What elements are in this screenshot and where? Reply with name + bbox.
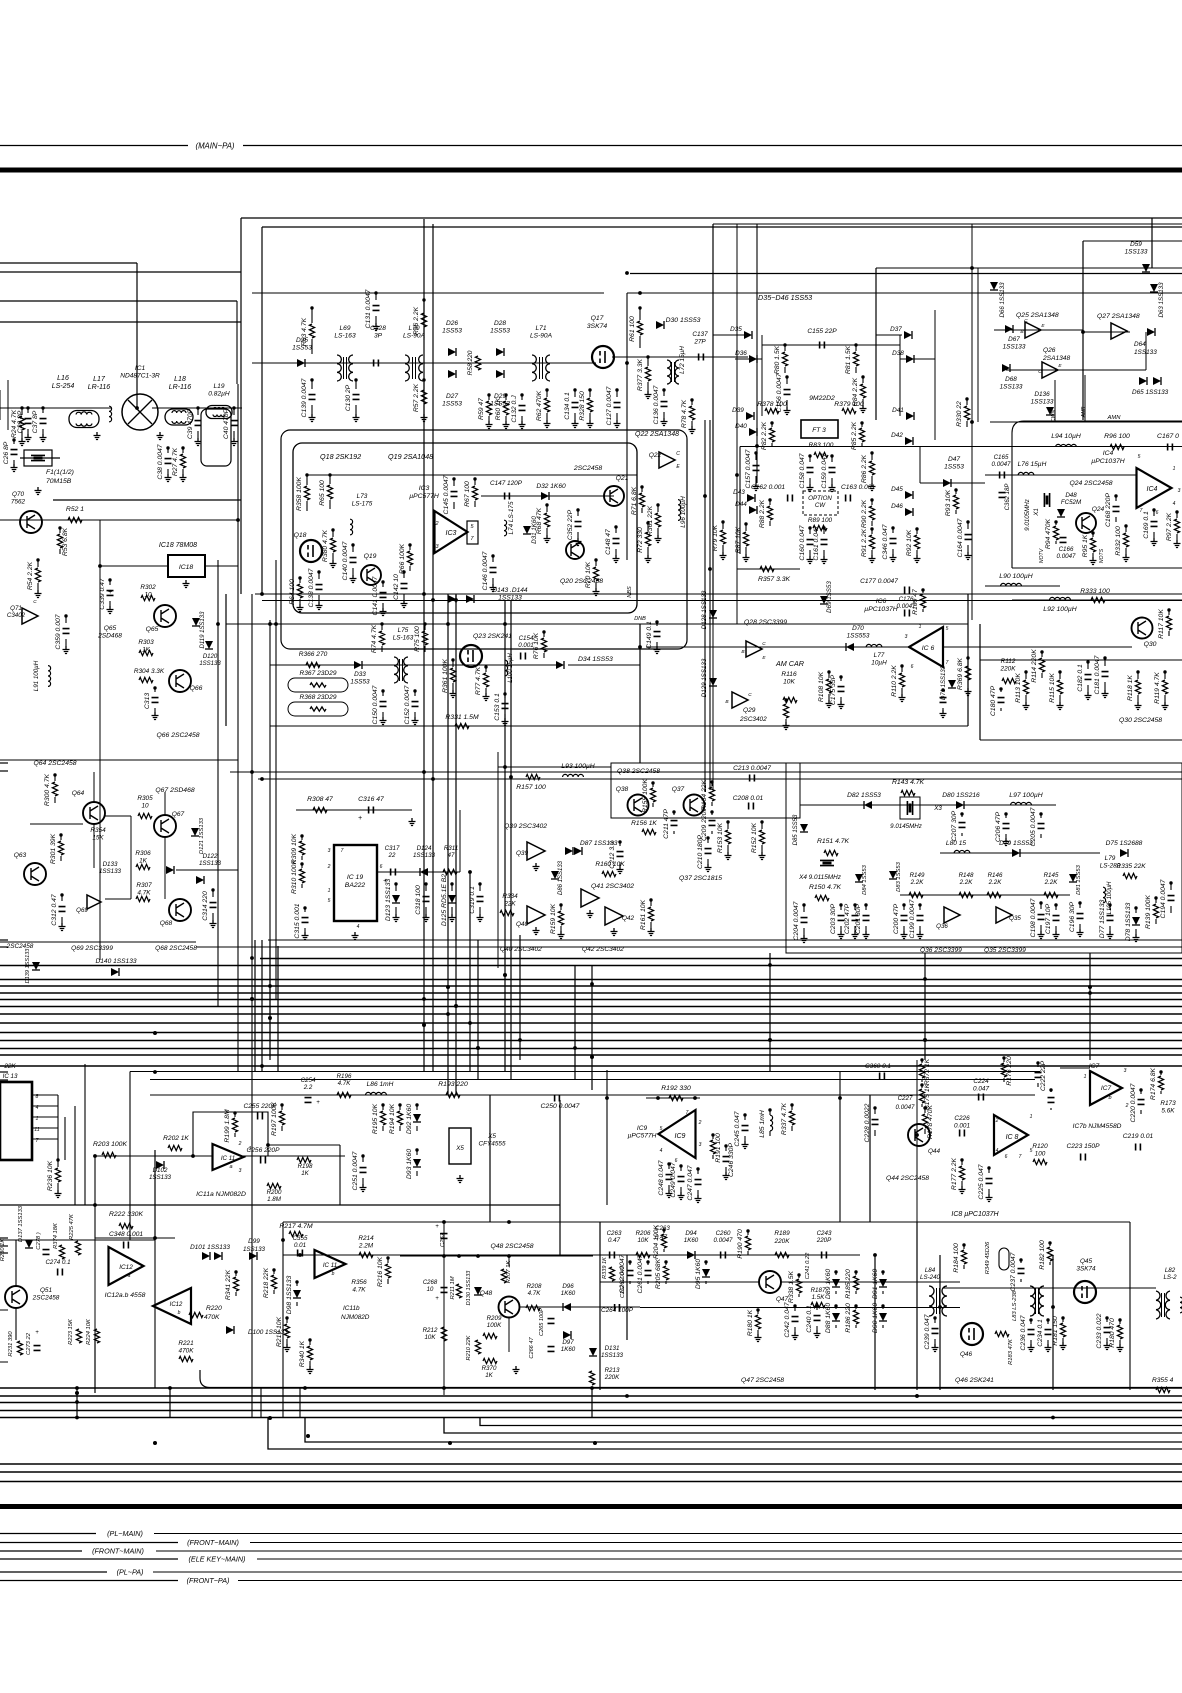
svg-text:X1: X1: [1033, 508, 1040, 517]
svg-text:1K60: 1K60: [561, 1346, 576, 1353]
wire: [0, 1571, 107, 1573]
wire junction: [860, 421, 863, 424]
wire: [619, 862, 621, 866]
wire: [769, 1110, 771, 1115]
svg-text:D93 1K60: D93 1K60: [406, 1149, 413, 1179]
svg-text:Q68 2SC2458: Q68 2SC2458: [155, 945, 197, 952]
svg-text:C152 0.0047: C152 0.0047: [404, 685, 411, 724]
wire junction: [941, 688, 944, 691]
wire: [1059, 672, 1061, 679]
resistor R310: [299, 869, 304, 883]
svg-text:R197 100K: R197 100K: [271, 1102, 278, 1136]
op-amp IC12b 4558: [153, 1288, 191, 1324]
wire junction: [679, 1164, 682, 1167]
svg-text:R366 270: R366 270: [299, 651, 328, 658]
wire: [1168, 610, 1170, 615]
wire: [1155, 919, 1157, 924]
wire junction: [1103, 656, 1106, 659]
diode: [889, 871, 897, 879]
resistor: [483, 1333, 497, 1338]
wire: [416, 1171, 418, 1176]
wire: [855, 345, 857, 351]
svg-text:R95 1K: R95 1K: [1082, 534, 1089, 557]
resistor R380: [330, 538, 335, 552]
wire: [876, 334, 902, 336]
svg-text:R335 22K: R335 22K: [1116, 863, 1146, 870]
svg-text:R331 1.5M: R331 1.5M: [445, 714, 479, 721]
wire junction: [744, 522, 747, 525]
wire: [546, 390, 548, 397]
wire: [0, 1410, 1182, 1412]
IF transformer coil: [165, 409, 193, 425]
svg-text:(ELE KEY~MAIN): (ELE KEY~MAIN): [189, 1555, 246, 1564]
diode: [523, 526, 531, 534]
svg-text:D43: D43: [733, 489, 745, 496]
svg-text:1: 1: [919, 624, 922, 630]
svg-text:Q47 2SC2458: Q47 2SC2458: [741, 1377, 784, 1384]
svg-text:D69 1SS53: D69 1SS53: [826, 581, 833, 613]
wire: [150, 1079, 1035, 1081]
resistor R340: [307, 1346, 312, 1360]
capacitor: [391, 869, 396, 876]
transistor Q71 2SC3402: [22, 608, 38, 624]
wire: [921, 1079, 923, 1082]
wire: [839, 1072, 841, 1223]
ground: [1053, 931, 1060, 939]
wire: [809, 456, 811, 462]
wire: [182, 448, 184, 453]
wire: [924, 953, 926, 1060]
wire junction: [915, 1394, 919, 1398]
diode: [156, 1161, 164, 1169]
wire junction: [268, 984, 272, 988]
svg-text:4.7K: 4.7K: [137, 889, 151, 896]
svg-text:1SS53: 1SS53: [490, 328, 510, 335]
svg-text:D42: D42: [891, 432, 903, 439]
svg-text:D129 1SS133: D129 1SS133: [701, 658, 708, 697]
svg-text:R174 6.8K: R174 6.8K: [1150, 1067, 1157, 1100]
svg-text:LS-2: LS-2: [1163, 1274, 1177, 1281]
wire junction: [153, 1070, 157, 1074]
svg-text:L72 15µH: L72 15µH: [679, 346, 686, 374]
wire junction: [696, 1167, 699, 1170]
svg-text:3: 3: [1178, 488, 1181, 494]
wire: [243, 1155, 345, 1157]
wire: [94, 1238, 96, 1340]
diode: [744, 331, 752, 339]
transistor Q36 2SC3399: [944, 907, 960, 923]
svg-text:R116: R116: [781, 671, 797, 678]
ground: [423, 914, 430, 922]
svg-text:R208: R208: [527, 1283, 542, 1290]
ground: [1174, 540, 1181, 548]
capacitor C248: [666, 1175, 673, 1180]
wire junction: [20, 406, 23, 409]
svg-text:C145 0.0047: C145 0.0047: [443, 475, 450, 514]
filter FT3 9M22D2: [801, 420, 838, 438]
wire: [1012, 599, 1182, 601]
diode: [800, 824, 808, 832]
svg-text:R92 10K: R92 10K: [906, 529, 913, 556]
resistor: [306, 662, 320, 667]
wire junction: [576, 508, 579, 511]
wire junction: [153, 1441, 157, 1445]
wire: [1115, 496, 1117, 501]
wire: [57, 1183, 59, 1190]
wire junction: [196, 406, 199, 409]
wire: [0, 1471, 1182, 1473]
transistor Q24 2SC2458: [1076, 513, 1096, 533]
wire: [619, 842, 621, 846]
svg-text:R354: R354: [90, 827, 106, 834]
wire: [416, 1126, 418, 1131]
wire junction: [1088, 991, 1092, 995]
resistor R155: [650, 788, 655, 802]
wire junction: [59, 833, 62, 836]
wire: [1129, 1222, 1131, 1390]
ground: [821, 556, 828, 564]
svg-text:Q45: Q45: [1080, 1258, 1093, 1265]
svg-text:C127 0.0047: C127 0.0047: [606, 386, 613, 425]
wire: [425, 884, 427, 891]
wire junction: [1108, 903, 1111, 906]
wire: [924, 1129, 926, 1134]
resistor: [441, 1327, 446, 1341]
wire: [443, 1221, 445, 1395]
wire junction: [166, 446, 169, 449]
wire: [784, 367, 786, 373]
capacitor C39: [195, 421, 202, 426]
svg-text:C261 0.0047: C261 0.0047: [637, 1254, 644, 1293]
wire junction: [656, 503, 659, 506]
svg-text:3: 3: [239, 1168, 242, 1174]
wire junction: [211, 888, 214, 891]
wire: [377, 871, 460, 873]
svg-text:Q51: Q51: [40, 1287, 53, 1294]
capacitor: [699, 354, 704, 361]
resistor R114: [1039, 658, 1044, 672]
wire junction: [1134, 906, 1137, 909]
svg-text:220K: 220K: [774, 1238, 791, 1245]
wire junction: [306, 1434, 310, 1438]
wire: [1005, 834, 1007, 838]
svg-text:D65 1SS133: D65 1SS133: [1132, 389, 1169, 396]
capacitor C228: [872, 1120, 879, 1125]
wire: [301, 856, 303, 860]
resistor: [760, 566, 774, 571]
wire: [901, 688, 903, 694]
ground: [107, 606, 114, 614]
wire: [61, 917, 63, 923]
wire: [0, 300, 237, 302]
wire: [474, 479, 476, 485]
svg-text:R153 10K: R153 10K: [717, 822, 724, 853]
wire junction: [41, 406, 44, 409]
transistor Q64 2SC2458: [83, 802, 105, 824]
svg-text:R78 4.7K: R78 4.7K: [681, 399, 688, 428]
svg-text:3: 3: [905, 634, 908, 640]
svg-text:D83 1SS53: D83 1SS53: [896, 861, 902, 891]
svg-text:D46: D46: [891, 503, 903, 510]
wire junction: [838, 1096, 842, 1100]
wire junction: [457, 1254, 461, 1258]
resistor: [313, 807, 327, 812]
capacitor C212: [617, 852, 624, 857]
wire: [0, 1558, 178, 1560]
svg-text:IC 11: IC 11: [323, 1262, 337, 1269]
capacitor C159: [829, 468, 836, 473]
wire: [414, 691, 416, 696]
svg-text:Q39 2SC3402: Q39 2SC3402: [504, 823, 547, 830]
wire: [574, 413, 576, 420]
svg-text:470K: 470K: [204, 1314, 220, 1321]
resistor: [901, 790, 915, 795]
ground: [19, 438, 26, 446]
svg-text:C37 8P: C37 8P: [32, 410, 39, 433]
wire: [167, 469, 169, 474]
wire junction: [923, 1106, 926, 1109]
IC IC13: [0, 1082, 32, 1160]
svg-text:R368 23D29: R368 23D29: [299, 694, 336, 701]
wire: [488, 395, 490, 400]
wire junction: [424, 882, 427, 885]
ground: [838, 701, 845, 709]
svg-text:IC9: IC9: [637, 1125, 648, 1132]
inductor: [109, 406, 112, 422]
capacitor C146: [490, 568, 497, 573]
diode: [906, 355, 914, 363]
svg-text:7: 7: [1019, 1154, 1022, 1160]
svg-text:Q22 2SA1348: Q22 2SA1348: [635, 431, 679, 438]
wire: [94, 1340, 96, 1393]
wire: [725, 1146, 727, 1151]
svg-text:D27: D27: [446, 393, 458, 400]
wire: [309, 1340, 311, 1345]
svg-text:C312 0.47: C312 0.47: [51, 894, 58, 926]
svg-text:2SD468: 2SD468: [97, 633, 122, 640]
svg-text:R213: R213: [605, 1367, 620, 1374]
svg-text:D28: D28: [494, 320, 506, 327]
diode: [448, 370, 456, 378]
capacitor: [555, 1095, 560, 1102]
wire junction: [1086, 660, 1089, 663]
wire junction: [386, 1256, 389, 1259]
wire junction: [58, 526, 61, 529]
resistor R59: [486, 401, 491, 415]
resistor R77: [483, 673, 488, 687]
svg-text:IC 8: IC 8: [1006, 1134, 1019, 1141]
svg-text:D143 .D144: D143 .D144: [492, 587, 528, 594]
resistor R62: [544, 398, 549, 412]
svg-text:D98 1SS133: D98 1SS133: [286, 1276, 293, 1315]
wire junction: [649, 898, 652, 901]
wire junction: [638, 645, 642, 649]
wire: [1003, 1058, 1005, 1062]
wire: [423, 328, 425, 340]
svg-text:C208 0.01: C208 0.01: [733, 795, 764, 802]
svg-text:R67 100: R67 100: [464, 481, 471, 507]
wire junction: [98, 564, 102, 568]
ground: [705, 864, 712, 872]
wire junction: [504, 393, 507, 396]
resistor R56: [421, 313, 426, 327]
svg-text:C169 0.1: C169 0.1: [1143, 511, 1150, 539]
wire junction: [1036, 1061, 1039, 1064]
wire: [656, 622, 658, 626]
wire: [233, 408, 235, 415]
wire junction: [328, 473, 331, 476]
ground: [284, 1344, 291, 1352]
ground: [450, 690, 457, 698]
wire: [423, 405, 425, 414]
svg-text:5: 5: [1138, 454, 1141, 460]
svg-text:OPTION: OPTION: [808, 495, 832, 502]
wire: [568, 664, 640, 666]
svg-text:R357 3.3K: R357 3.3K: [758, 576, 791, 583]
inductor: [866, 644, 882, 647]
wire: [725, 1167, 727, 1172]
svg-text:C164 0.0047: C164 0.0047: [957, 518, 964, 557]
wire: [713, 223, 1182, 225]
wire junction: [351, 543, 354, 546]
wire: [451, 907, 453, 914]
wire: [424, 646, 426, 652]
svg-text:220P: 220P: [816, 1237, 832, 1244]
svg-text:R62 470K: R62 470K: [536, 390, 543, 421]
wire junction: [408, 543, 411, 546]
wire junction: [1040, 650, 1043, 653]
wire: [616, 390, 618, 397]
wire junction: [446, 1012, 450, 1016]
svg-text:R378 100: R378 100: [757, 401, 787, 408]
resistor: [526, 1305, 540, 1310]
svg-text:R192 330: R192 330: [661, 1085, 691, 1092]
wire junction: [153, 1236, 157, 1240]
wire: [505, 395, 507, 400]
wire: [961, 1181, 963, 1186]
wire junction: [268, 1416, 272, 1420]
svg-text:Q46 2SK241: Q46 2SK241: [955, 1377, 994, 1384]
ground: [1107, 931, 1114, 939]
wire junction: [431, 777, 435, 781]
resistor R175: [919, 1089, 924, 1103]
wire: [589, 390, 591, 397]
wire: [0, 1065, 1182, 1067]
wire: [381, 624, 383, 630]
wire junction: [381, 580, 384, 583]
wire junction: [454, 598, 458, 602]
transistor Q40 2SC3402: [527, 906, 545, 924]
svg-text:F1(1(1/2): F1(1(1/2): [46, 469, 74, 476]
ground: [55, 1190, 62, 1198]
svg-text:R24 4.7K: R24 4.7K: [11, 409, 18, 438]
transistor Q44 2SC2458: [908, 1124, 930, 1146]
ground: [617, 866, 624, 874]
svg-text:R27 4.7K: R27 4.7K: [172, 447, 179, 476]
wire: [0, 759, 238, 761]
diode: [496, 348, 504, 356]
wire: [0, 1361, 8, 1363]
svg-text:X3: X3: [933, 805, 942, 812]
diode: [943, 479, 951, 487]
svg-text:R160 10K: R160 10K: [595, 861, 625, 868]
svg-text:0.0047: 0.0047: [896, 1104, 915, 1111]
wire junction: [260, 1064, 264, 1068]
resistor R337: [789, 1111, 794, 1125]
wire junction: [690, 398, 693, 401]
wire junction: [300, 862, 303, 865]
wire: [54, 775, 56, 781]
capacitor C175: [838, 687, 845, 692]
wire: [871, 500, 873, 505]
wire: [212, 913, 214, 920]
diode: [1069, 874, 1077, 882]
svg-text:R75 100: R75 100: [414, 626, 421, 652]
resistor R54: [35, 568, 40, 582]
wire: [65, 616, 67, 623]
svg-text:D87 1SS133: D87 1SS133: [580, 840, 618, 847]
svg-text:C316 47: C316 47: [358, 796, 384, 803]
svg-text:L18: L18: [174, 376, 186, 383]
svg-text:R367 23D29: R367 23D29: [299, 670, 336, 677]
transistor Q66 2SC2458: [169, 670, 191, 692]
wire: [942, 708, 944, 710]
svg-text:C262 0.0047: C262 0.0047: [619, 1254, 626, 1293]
wire: [275, 560, 277, 1000]
wire: [1037, 1063, 1039, 1067]
wire: [967, 681, 969, 688]
wire: [1084, 375, 1086, 422]
ground: [901, 931, 908, 939]
wire junction: [662, 388, 665, 391]
capacitor C153: [502, 704, 509, 709]
wire: [1125, 548, 1127, 554]
svg-text:2.2K: 2.2K: [959, 879, 974, 886]
wire: [1082, 241, 1084, 420]
svg-text:1: 1: [1030, 1114, 1033, 1120]
resistor R82: [769, 428, 774, 442]
svg-text:R93 10K: R93 10K: [945, 489, 952, 516]
wire junction: [478, 882, 481, 885]
wire junction: [651, 781, 654, 784]
wire junction: [573, 388, 576, 391]
wire junction: [545, 388, 548, 391]
wire: [736, 569, 738, 624]
ground: [860, 405, 867, 413]
wire junction: [503, 692, 506, 695]
svg-text:C3402: C3402: [7, 612, 26, 619]
wire junction: [711, 1133, 714, 1136]
resistor R93: [953, 495, 958, 509]
svg-text:10K: 10K: [637, 1237, 649, 1244]
svg-text:C225 0.047: C225 0.047: [978, 1164, 985, 1199]
wire junction: [900, 664, 903, 667]
svg-text:R377 3.3K: R377 3.3K: [637, 358, 644, 391]
svg-text:R206: R206: [636, 1230, 651, 1237]
wire: [828, 694, 830, 700]
wire: [668, 1164, 670, 1169]
wire: [480, 1418, 1182, 1426]
svg-text:C39 470P: C39 470P: [187, 408, 194, 439]
resistor R67: [472, 486, 477, 500]
wire: [828, 672, 830, 678]
wire: [152, 407, 242, 409]
svg-text:L97 100µH: L97 100µH: [1009, 792, 1042, 799]
wire: [761, 822, 763, 829]
svg-text:CWN: CWN: [1051, 410, 1057, 423]
svg-text:IC7b NJM4558D: IC7b NJM4558D: [1073, 1123, 1122, 1130]
wire: [0, 979, 1182, 981]
